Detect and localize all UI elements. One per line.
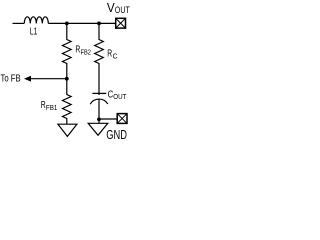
svg-text:GND: GND (106, 127, 127, 142)
svg-text:FB1: FB1 (46, 105, 58, 112)
svg-text:OUT: OUT (115, 5, 130, 15)
svg-text:V: V (107, 0, 115, 15)
svg-text:To FB: To FB (1, 73, 21, 85)
svg-text:R: R (41, 100, 46, 111)
svg-text:C: C (113, 54, 118, 61)
svg-text:R: R (107, 49, 112, 60)
svg-text:OUT: OUT (113, 94, 127, 101)
svg-text:FB2: FB2 (81, 50, 91, 57)
svg-text:L1: L1 (30, 27, 38, 38)
